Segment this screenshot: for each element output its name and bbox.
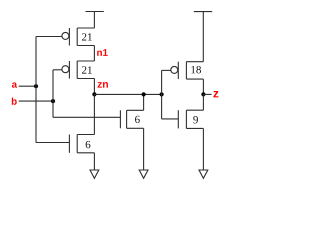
label 6 (N2) [135, 116, 140, 123]
vdd symbol left [86, 12, 104, 29]
wire a to Q1 gate [36, 36, 62, 38]
node zn label [98, 82, 108, 88]
wire zn to N3 gate [162, 94, 179, 119]
wire z stub [203, 93, 211, 95]
junction dot z [201, 92, 205, 96]
pmos P3 18 (inverter pull-up) [171, 62, 204, 79]
ground symbol left [90, 170, 99, 178]
wire N3 source to ground [202, 128, 204, 170]
wire zn: Q2 drain down to zn junction [93, 79, 95, 95]
wire b vertical [52, 70, 54, 118]
wire b to Q2 gate [53, 69, 62, 71]
junction dot b [51, 99, 55, 103]
input b label [12, 98, 17, 105]
label 21 (Q1) [82, 33, 92, 40]
wire z down to N3 drain [202, 94, 204, 110]
pmos Q2 21 (gate b) [62, 61, 95, 79]
junction dot zn right [160, 92, 164, 96]
wire b stub [19, 100, 53, 102]
wire a stub [19, 85, 36, 87]
label 6 (N1) [86, 141, 91, 148]
pmos Q1 21 (gate a) [62, 28, 95, 46]
ground symbol middle [139, 170, 148, 178]
ground symbol right [199, 170, 208, 178]
vdd symbol right [194, 12, 212, 62]
input a label [12, 82, 17, 87]
junction dot zn left [92, 92, 96, 96]
output z label [213, 91, 218, 97]
nmos N3 9 (inverter pull-down) [178, 110, 203, 128]
node n1 label [97, 49, 108, 56]
nmos N2 6 (gate b, middle) [120, 110, 143, 128]
label 9 (N3) [193, 116, 198, 123]
label 21 (Q2) [82, 66, 92, 73]
wire n1: Q1 drain to Q2 source [93, 46, 95, 62]
wire zn: down to N1 drain [93, 94, 95, 134]
wire N2 drain up to zn rail [143, 94, 145, 110]
label 18 (P3) [191, 66, 201, 73]
wire N2 source to ground [143, 128, 145, 170]
wire N1 source to ground [93, 153, 95, 170]
wire a to N1 gate [36, 142, 69, 144]
wire b to N2 gate [53, 116, 120, 118]
wire zn to P3 gate [162, 70, 171, 94]
junction dot a [34, 84, 38, 88]
wire P3 drain to z node [202, 79, 204, 94]
junction dot zn mid [142, 92, 146, 96]
nmos N1 6 (gate a, lower left) [69, 135, 94, 153]
wire zn rail to inverter [94, 93, 161, 95]
wire a vertical [35, 37, 37, 143]
